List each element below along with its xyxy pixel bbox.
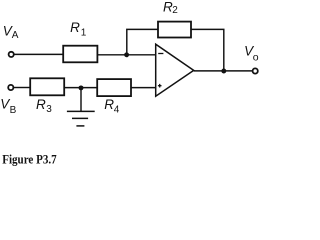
wire bbox=[14, 87, 30, 89]
svg-text:Figure P3.7: Figure P3.7 bbox=[2, 152, 57, 167]
svg-text:o: o bbox=[253, 51, 259, 63]
svg-text:2: 2 bbox=[172, 5, 178, 16]
wire bbox=[14, 53, 63, 55]
wire bbox=[131, 87, 156, 89]
resistor R1 bbox=[63, 46, 97, 63]
svg-text:1: 1 bbox=[81, 27, 87, 38]
ground bbox=[80, 88, 82, 112]
wire bbox=[127, 29, 158, 54]
wire bbox=[64, 87, 97, 89]
svg-text:3: 3 bbox=[46, 104, 52, 115]
node output bbox=[221, 69, 226, 74]
junction node B bbox=[79, 85, 84, 90]
svg-text:B: B bbox=[10, 105, 17, 116]
op-amp U1 bbox=[156, 44, 194, 96]
minus input bbox=[158, 53, 163, 55]
resistor R2 bbox=[158, 22, 191, 38]
svg-text:R: R bbox=[36, 97, 46, 112]
terminal VB bbox=[8, 85, 13, 90]
wire bbox=[191, 29, 224, 71]
junction node A bbox=[124, 52, 129, 57]
terminal VA bbox=[9, 52, 14, 57]
svg-text:R: R bbox=[70, 20, 80, 35]
terminal Vo bbox=[253, 68, 258, 73]
resistor R4 bbox=[97, 79, 131, 96]
svg-text:4: 4 bbox=[114, 105, 120, 116]
svg-text:R: R bbox=[104, 97, 114, 112]
svg-text:A: A bbox=[12, 30, 19, 41]
resistor R3 bbox=[30, 78, 64, 95]
plus input bbox=[158, 85, 162, 87]
wire bbox=[97, 54, 155, 56]
wire bbox=[194, 70, 252, 72]
